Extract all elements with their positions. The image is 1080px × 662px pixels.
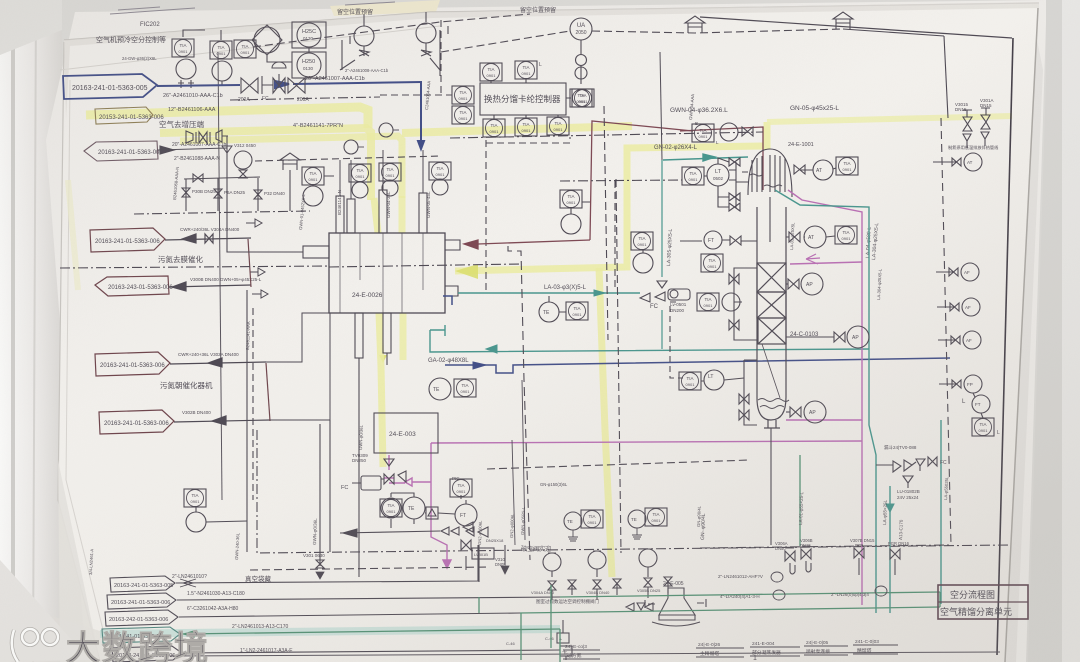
wire stub AP2 <box>937 306 954 308</box>
wire bottom line1 <box>176 545 478 583</box>
exchanger stub right2 <box>445 286 458 296</box>
wire dashed signal y157 <box>255 156 441 161</box>
pipe arrow callout 006 l3 <box>95 276 169 296</box>
drawing frame bottom border <box>170 652 1000 656</box>
exchanger nozzle rect bot2 <box>383 313 391 353</box>
exchanger nozzle rect top1 <box>336 196 344 233</box>
check valve row D <box>186 131 210 143</box>
instrument AP upper <box>801 273 823 295</box>
pipe callout b3 <box>105 610 178 626</box>
instrument FE <box>234 151 252 169</box>
instrument TIA exch top C <box>429 162 451 180</box>
wire highlight left edge yellow marks <box>68 180 78 290</box>
vent stack V2 <box>833 12 853 29</box>
wire LT links <box>701 378 744 381</box>
instrument FT bl <box>455 504 477 526</box>
exchanger nozzle rect top2 <box>379 190 387 233</box>
exchanger nozzle rect top1b <box>347 199 355 233</box>
wire dashed vertical left of box <box>440 20 442 95</box>
instrument TICA left low <box>184 489 206 507</box>
exchanger stub right1 <box>445 240 460 250</box>
instrument AP r2 <box>962 298 980 316</box>
wire stub AP1 <box>936 271 953 273</box>
funnel drain <box>222 146 232 160</box>
valve V301A <box>981 108 990 129</box>
wire dash-dot drum left <box>560 180 682 181</box>
maroon GWN-04 line group <box>464 121 763 249</box>
instrument PSV1 <box>354 26 374 46</box>
column 24-C-0103 shell <box>757 207 786 420</box>
wire col level vert <box>744 360 757 425</box>
wire from callout r5 <box>174 420 270 422</box>
grounded TE pair 1 <box>564 512 582 530</box>
valve small r2 <box>205 234 213 243</box>
vent small mid <box>280 153 300 170</box>
instrument AC diamond <box>254 27 280 53</box>
valve AP lower <box>834 332 845 342</box>
wire green verticals <box>479 585 560 662</box>
wire dash-dot through exchanger <box>60 266 329 268</box>
valve stub AP4 <box>952 380 961 388</box>
column packing X1 <box>757 263 786 292</box>
drain Y pair <box>963 132 989 148</box>
column bypass wire <box>734 268 757 340</box>
wire green line2 ext <box>560 592 940 597</box>
paper right edge <box>1004 40 1043 662</box>
wire AT mid link <box>786 236 835 237</box>
instrument LT-0502 drum <box>707 164 729 186</box>
instrument TIA left of box <box>452 86 474 104</box>
instrument H250 <box>292 52 326 78</box>
corner shades <box>0 0 62 55</box>
drawing frame right border <box>997 38 1013 655</box>
wire highlight yellow GN line bottom <box>599 268 612 577</box>
pipe callout b1 <box>110 576 175 592</box>
wire dash-dot y136 <box>450 132 763 138</box>
grounded TE pair 2 <box>628 510 646 528</box>
PSV circle row 2 <box>588 551 606 569</box>
pipe arrow callout 20163-241-01-5363-005 blue <box>63 74 157 99</box>
wire teal drop to FC station <box>661 160 663 349</box>
instrument UA-2050 <box>570 18 592 40</box>
wire manifold drops <box>186 178 258 207</box>
wire from callout l3 <box>169 285 251 287</box>
wire from callout r4 <box>170 362 266 364</box>
left gray band <box>0 0 62 662</box>
pipe callout b5 <box>112 646 182 662</box>
wire dashed box mid-bottom <box>487 460 750 469</box>
valve column side <box>789 232 800 242</box>
valve col bot1 <box>739 394 749 404</box>
instrument PSV2 <box>416 23 436 43</box>
wire dashed vert x253 <box>252 308 254 500</box>
cloud circles bottom <box>771 572 783 582</box>
pipe arrow callout 005 left-point <box>84 141 158 161</box>
pipe arrow callout 006 r5 <box>99 410 174 434</box>
svg-text:大数跨境: 大数跨境 <box>66 630 210 662</box>
instrument ATA mid column <box>835 226 857 244</box>
instrument LT col bottom <box>704 370 724 390</box>
wire bottom line5 <box>183 650 560 653</box>
watermark <box>0 612 300 662</box>
wire dashed vert x521 <box>508 246 530 560</box>
green bottom lines <box>182 455 940 662</box>
navy GA-02 line <box>443 296 950 373</box>
reflux drum 24-E-1001 <box>748 149 792 197</box>
instrument FT circ mid <box>633 253 653 273</box>
instrument FT col left <box>704 231 722 249</box>
wire bottom nozzle drops <box>359 353 387 420</box>
diamond delta <box>426 507 438 519</box>
instrument TIA exch top B <box>379 163 401 181</box>
pipe arrow callout 006 r2 <box>90 228 165 252</box>
valve V301 bottom <box>316 560 324 568</box>
instrument FT-0302 <box>212 61 232 81</box>
valve stub AP2 <box>950 303 959 311</box>
wire TE pair link <box>549 296 566 312</box>
drawing frame left border <box>218 52 222 500</box>
instrument TE exch top C <box>432 179 448 195</box>
wire UA chain <box>580 40 582 84</box>
instrument AP lower <box>847 326 869 348</box>
check valve manifold <box>193 174 203 182</box>
instrument b1 below box <box>483 119 505 137</box>
teal station check valves <box>893 459 925 472</box>
wire magenta center long <box>431 441 862 443</box>
exchanger top wires <box>340 150 423 196</box>
wire bottom line3 <box>179 613 520 617</box>
vent stack V1 <box>685 16 705 33</box>
pipe callout b4 teal <box>102 627 180 643</box>
valves under psv row <box>548 577 672 590</box>
valve P6A <box>214 189 222 198</box>
valve on GWN-04 <box>742 127 753 136</box>
instrument PIA above box <box>480 63 502 81</box>
instrument HI <box>234 40 256 58</box>
blue feed line group <box>63 74 424 149</box>
instrument F2A sq r <box>972 418 994 436</box>
instrument AIA2 below box <box>547 117 569 135</box>
wire stub AP3 <box>938 339 955 341</box>
exchanger internal channels <box>340 233 423 313</box>
wire riser from valve row <box>226 136 228 172</box>
wire teal return mid <box>430 330 869 352</box>
wire from callout r2 <box>165 238 251 240</box>
instrument TE exch top A <box>352 182 368 198</box>
column skirt <box>764 420 780 428</box>
wire highlight yellow vertical stream A <box>374 198 383 467</box>
column packing X3 <box>758 318 786 344</box>
node circle small B <box>575 67 587 79</box>
wire FT link <box>973 393 975 397</box>
wire teal line4 <box>182 629 560 634</box>
wire top dashed bus upper <box>253 14 530 47</box>
wire stub AT1 <box>933 161 956 163</box>
wire V310 drop <box>504 545 506 565</box>
valve V307B bottom <box>854 548 864 558</box>
wire right header dashed <box>941 118 951 545</box>
valve stub AT1 <box>952 158 961 166</box>
column packing X2 <box>757 292 786 318</box>
wire teal to drum <box>663 157 748 160</box>
wire dashed box dn <box>486 137 570 290</box>
instrument M circle a <box>344 140 358 154</box>
valve col left1 <box>730 236 741 245</box>
teal station valve FT <box>928 457 937 466</box>
wire drum neck <box>680 197 770 242</box>
teal process lines <box>430 52 869 353</box>
exchanger stub left <box>303 246 329 258</box>
left stack edge lines <box>58 42 100 662</box>
instrument T2 left <box>560 190 582 208</box>
manifold header <box>184 177 260 179</box>
instrument TE bl <box>403 497 425 519</box>
instrument TE exch top B <box>382 180 398 196</box>
wire left feed to exchanger <box>186 172 303 252</box>
valve drum out <box>794 165 805 174</box>
teal reflux line group <box>663 154 748 161</box>
wire green line3 ext <box>520 607 940 613</box>
wire vertical legs below exchanger <box>320 420 359 577</box>
heat exchanger 24-E-0026 <box>329 233 445 313</box>
wire maroon vert link 2 <box>266 363 270 421</box>
wire teal station drop <box>889 486 891 613</box>
pipe arrow callout 006 r4 <box>95 352 170 376</box>
valve TV0309 cluster <box>384 459 406 484</box>
valve P30B <box>182 188 190 197</box>
u loops bottom <box>790 563 811 574</box>
valve V305 pair on green <box>626 603 653 611</box>
ejector row <box>441 527 459 535</box>
wire top bus solid right <box>843 29 944 36</box>
wire navy GA-02 <box>443 296 950 373</box>
wire twin verticals 509 521 <box>512 380 525 545</box>
wire dash-dot mid-left long <box>230 97 380 100</box>
wire AT link <box>800 168 836 170</box>
wire box risers <box>491 79 571 98</box>
funnel horns left column <box>255 219 268 298</box>
instrument FT sq mid <box>631 232 653 250</box>
pipe arrow callout yellow 006 <box>95 107 153 124</box>
instrument T2 exch right <box>454 379 476 397</box>
instrument LIA above box <box>515 61 537 79</box>
instrument AT top drum <box>813 160 833 180</box>
valve P32 <box>254 190 262 199</box>
wire right main header vertical <box>944 36 948 118</box>
wire from callout 005 <box>158 148 227 150</box>
wire stub AP4 <box>939 383 956 385</box>
instrument ATA top drum <box>836 157 858 175</box>
valve drum low1 <box>729 193 740 201</box>
wire dash-dot battery left bottom <box>257 430 1010 553</box>
wire left lower feeds <box>266 313 330 420</box>
wire blue main feed <box>157 85 240 86</box>
instrument AIA1 below box <box>515 118 537 136</box>
exchanger nozzle rect top3 <box>419 193 427 233</box>
wire highlight yellow bus 12in <box>160 126 632 200</box>
wire magenta from drum <box>786 190 862 420</box>
wire blue riser down <box>420 82 422 140</box>
instrument TIAS left of box <box>452 106 474 124</box>
instrument FT on GWN-04 <box>720 123 738 141</box>
wire teal LA-03 right <box>458 292 640 294</box>
wire dashed vert at 615 <box>614 181 616 290</box>
wire highlight yellow vertical stream B <box>402 196 403 360</box>
instrument TE-0503 <box>561 214 581 234</box>
wire green right verticals <box>800 455 940 607</box>
instrument PIC <box>450 479 472 497</box>
wire column bottom outlet <box>770 428 772 545</box>
wire psv drops <box>552 581 668 600</box>
valve row K <box>216 130 228 142</box>
instrument AP r4 <box>964 375 982 393</box>
wire top-left small risers <box>342 26 448 76</box>
wire top dashed bus main <box>441 29 843 52</box>
valve cluster FC LV-0501 <box>640 281 667 302</box>
node circle small A <box>576 55 587 66</box>
valve control FC <box>262 62 286 94</box>
wire GN-02 riser top <box>660 52 662 160</box>
wire drum left links <box>718 158 729 207</box>
wire ejector drop <box>466 545 479 582</box>
controller box <box>480 83 566 115</box>
instrument TIA mid <box>302 167 324 185</box>
PSV circle row 3 <box>639 549 657 567</box>
valve stub AP1 <box>949 268 958 276</box>
wire GWN-04 header <box>680 127 763 190</box>
valve small under ejector <box>461 540 471 550</box>
wire below-box links <box>494 115 558 119</box>
pipe callout b2 <box>107 593 176 609</box>
valve V1 on blue <box>241 78 258 93</box>
instrument AT-0906 <box>964 153 982 171</box>
wire maroon to exchanger arrow <box>478 240 590 244</box>
undersheet scribble top <box>110 2 395 14</box>
vessel 24-E-005 <box>659 588 695 620</box>
instrument FT r <box>972 395 990 413</box>
wire teal column right <box>775 190 876 613</box>
wire teal bottom right drop <box>940 420 942 604</box>
valve AP bottom <box>790 407 801 417</box>
teal station funnel <box>903 476 913 488</box>
instrument AP r1 <box>961 263 979 281</box>
wire frame top right diagonal <box>700 17 1012 38</box>
title box <box>938 585 1028 619</box>
instrument FI <box>210 41 232 59</box>
wire dashed bottom seg <box>250 567 490 570</box>
wire highlight yellow GN-05 top right <box>767 116 1012 122</box>
instrument TE left low <box>186 512 206 532</box>
instrument FIA col left <box>701 254 723 272</box>
instrument TE pair mid1 <box>539 302 559 322</box>
instrument TIA exch top A <box>349 164 371 182</box>
valve bypass bot <box>729 320 739 330</box>
instrument LUA drum <box>682 167 704 185</box>
valve stub AP3 <box>951 336 960 344</box>
wire left long vert x247 <box>246 290 248 552</box>
valve drum top <box>729 158 740 166</box>
wire Y drop b4 <box>790 558 895 575</box>
drum internals <box>752 155 785 192</box>
wire battery limit dashdot left <box>134 211 310 214</box>
wire teal station links <box>876 462 916 465</box>
instrument M circle b <box>379 123 393 137</box>
wire LT to drum <box>704 162 736 208</box>
instrument LUA col bottom <box>679 372 701 390</box>
valve V306A bottom <box>785 551 795 561</box>
valve V2 on blue <box>288 78 305 93</box>
wire TE link <box>571 202 590 214</box>
valve bypass top <box>729 274 739 284</box>
instrument FIOR on GWN-04 <box>692 124 714 142</box>
instrument MIL circ left <box>722 293 740 311</box>
wire bottom line2 <box>177 597 560 600</box>
wire dashed right low region <box>700 545 952 548</box>
valve V3015 <box>963 110 972 131</box>
valve col bot2 <box>739 410 749 420</box>
instrument FIC top-left <box>172 39 194 57</box>
exchanger nozzle rect bot1 <box>355 313 363 358</box>
PSV circle row 1 <box>543 553 561 571</box>
instrument TE mid <box>303 186 323 206</box>
instrument TIA bl <box>380 499 402 517</box>
wire blue arrowhead <box>275 81 289 88</box>
soft shadows <box>64 2 1039 120</box>
wire vent drop <box>289 170 291 211</box>
instrument AP r3 <box>963 331 981 349</box>
valve V306B bottom <box>801 549 811 559</box>
wire horn stems <box>246 223 261 294</box>
column liquid <box>758 399 789 402</box>
instrument AP bottom <box>804 401 826 423</box>
wire dashed LV signal <box>670 302 683 378</box>
wire highlight yellow 4in line to exchanger <box>455 122 767 271</box>
instrument H25C <box>292 22 326 48</box>
instrument FT-0301 <box>176 59 196 79</box>
wire highlight yellow top callout line <box>86 107 368 128</box>
instrument AT mid column <box>804 226 826 248</box>
wire bl links <box>391 493 466 528</box>
column downcomer line <box>762 344 780 398</box>
wire magenta box drop <box>384 455 405 483</box>
wire maroon vert link callouts <box>248 239 251 287</box>
wire magenta bottom drop <box>861 420 863 605</box>
valve FE dn <box>239 170 247 178</box>
valve PGR bottom <box>890 549 900 559</box>
wire magenta side arm <box>790 262 862 264</box>
instrument UA square <box>570 89 592 107</box>
wire dashed vert x608 low <box>604 106 608 340</box>
wire highlight teal bottom callout <box>100 629 560 634</box>
wire inst links <box>183 30 309 62</box>
small TE boxes bottom <box>557 633 569 643</box>
instrument UA right of box <box>572 89 594 107</box>
wire dashed vert x615 <box>616 179 621 553</box>
box 24-E-003 <box>374 413 438 453</box>
wire psv links <box>340 12 440 70</box>
instrument PB2 sq left <box>697 293 719 311</box>
wire dashed signal to box <box>380 94 452 96</box>
magenta reflux loop <box>384 190 862 605</box>
valve drum low2 <box>729 203 740 211</box>
instrument TE exch right <box>429 378 451 400</box>
valve AP upper <box>788 279 799 289</box>
